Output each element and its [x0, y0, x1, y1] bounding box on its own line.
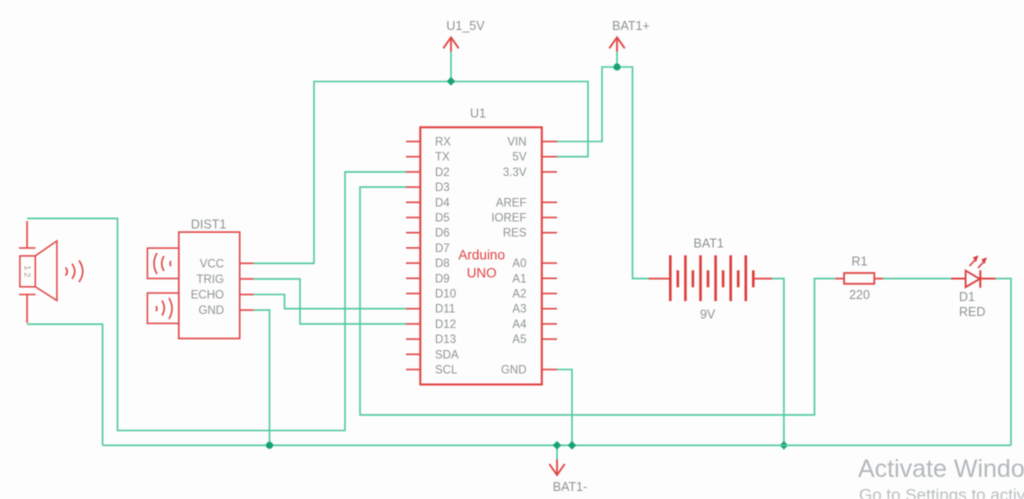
svg-text:A0: A0: [512, 258, 526, 270]
svg-text:D1: D1: [959, 290, 975, 304]
svg-text:A3: A3: [512, 304, 526, 316]
svg-text:D7: D7: [435, 243, 450, 255]
wire net D1 to ground bus: [996, 279, 1011, 446]
svg-text:ECHO: ECHO: [191, 290, 224, 302]
D1 anode lead: [951, 278, 966, 280]
wire speaker pin2 to bus: [27, 324, 103, 445]
BAT1 negative lead: [753, 278, 772, 280]
svg-text:VIN: VIN: [507, 137, 526, 149]
svg-text:D2: D2: [435, 167, 450, 179]
wire U1 GND to bus: [557, 370, 572, 446]
wire net BAT1+ / VIN: [557, 52, 649, 279]
svg-text:DIST1: DIST1: [191, 218, 226, 232]
D1 light arrows: [970, 259, 977, 266]
svg-text:GND: GND: [501, 365, 527, 377]
svg-text:BAT1+: BAT1+: [612, 19, 650, 33]
svg-text:RX: RX: [435, 137, 451, 149]
DIST1 receiver transducer: [147, 293, 178, 323]
speaker: [19, 221, 83, 323]
svg-text:IOREF: IOREF: [491, 213, 526, 225]
svg-text:D4: D4: [435, 197, 450, 209]
svg-text:Activate Windows: Activate Windows: [858, 455, 1024, 483]
speaker pin 1 stub: [19, 221, 36, 248]
svg-text:A4: A4: [512, 319, 527, 331]
svg-text:1 2: 1 2: [23, 265, 33, 277]
svg-text:BAT1-: BAT1-: [553, 480, 588, 494]
wire BAT1- stem: [556, 445, 558, 460]
svg-text:UNO: UNO: [467, 266, 497, 281]
svg-text:D8: D8: [435, 258, 450, 270]
svg-text:5V: 5V: [512, 152, 526, 164]
svg-text:A1: A1: [512, 273, 526, 285]
junction node battery minus on bus: [780, 441, 789, 450]
speaker cone: [35, 241, 57, 301]
U1 left pin stubs: [406, 142, 421, 370]
DIST1 pin GND: [240, 309, 254, 311]
U1 right pin stubs: [542, 142, 557, 370]
svg-text:D3: D3: [435, 182, 450, 194]
junction node BAT1+: [613, 63, 620, 70]
svg-text:U1: U1: [470, 107, 486, 121]
wire net 5V rail: [254, 52, 588, 264]
U1 right pin labels: [491, 137, 527, 377]
D1 cathode lead: [980, 278, 996, 280]
wire DIST1 GND to bus: [254, 310, 270, 445]
junction node BAT1- on bus: [553, 441, 562, 450]
arduino U1: [420, 107, 542, 385]
speaker pin 2 stub: [19, 295, 36, 324]
junction node DIST1 GND on bus: [266, 442, 273, 449]
svg-text:A2: A2: [512, 289, 526, 301]
DIST1 pin VCC: [240, 262, 254, 264]
svg-text:RED: RED: [959, 305, 985, 319]
svg-text:D6: D6: [435, 228, 450, 240]
svg-text:AREF: AREF: [496, 197, 527, 209]
speaker sound waves: [66, 268, 68, 276]
svg-text:D10: D10: [435, 289, 456, 301]
ultrasonic sensor DIST1: [147, 218, 253, 339]
svg-text:D5: D5: [435, 213, 450, 225]
svg-text:BAT1: BAT1: [694, 237, 724, 251]
speaker body: [20, 256, 35, 287]
BAT1 cell plates: [670, 255, 753, 301]
wire net TRIG to D12: [254, 279, 406, 324]
svg-text:D9: D9: [435, 273, 450, 285]
svg-text:220: 220: [849, 288, 870, 302]
wire ground bus: [103, 444, 1011, 446]
junction node U1 GND on bus: [568, 441, 577, 450]
svg-text:RES: RES: [503, 228, 527, 240]
power flag BAT1+: [609, 37, 624, 51]
svg-text:SDA: SDA: [435, 349, 459, 361]
DIST1 transmitter transducer: [147, 248, 178, 278]
svg-text:GND: GND: [198, 305, 224, 317]
wire net D2 to speaker: [27, 172, 406, 431]
wire net D3 to R1: [360, 187, 835, 415]
svg-text:A5: A5: [512, 334, 526, 346]
junction node 5V rail: [447, 77, 456, 86]
DIST1 pin TRIG: [240, 278, 254, 280]
svg-text:D11: D11: [435, 304, 455, 316]
svg-text:9V: 9V: [700, 308, 716, 322]
svg-text:U1_5V: U1_5V: [446, 19, 485, 33]
svg-text:SCL: SCL: [435, 365, 458, 377]
svg-text:TX: TX: [435, 152, 450, 164]
wire net ECHO to D11: [254, 295, 406, 309]
svg-text:R1: R1: [852, 255, 868, 269]
svg-text:3.3V: 3.3V: [503, 167, 527, 179]
D1 cathode bar: [979, 270, 981, 287]
svg-text:D13: D13: [435, 334, 456, 346]
battery BAT1: [649, 237, 773, 322]
resistor R1: [835, 255, 883, 303]
BAT1 positive lead: [649, 278, 671, 280]
U1 left pin labels: [435, 137, 459, 377]
svg-text:VCC: VCC: [200, 258, 224, 270]
DIST1 pin ECHO: [240, 294, 254, 296]
svg-text:Go to Settings to activate Win: Go to Settings to activate Windows.: [859, 486, 1024, 499]
power flag BAT1-: [549, 460, 564, 476]
D1 triangle: [966, 271, 980, 288]
wire net battery minus: [772, 279, 784, 446]
LED D1: [951, 256, 996, 319]
svg-text:D12: D12: [435, 319, 456, 331]
power flag U1_5V: [443, 37, 458, 51]
svg-text:TRIG: TRIG: [197, 274, 225, 286]
svg-text:Arduino: Arduino: [458, 248, 505, 263]
wire net R1 to D1: [883, 278, 951, 280]
